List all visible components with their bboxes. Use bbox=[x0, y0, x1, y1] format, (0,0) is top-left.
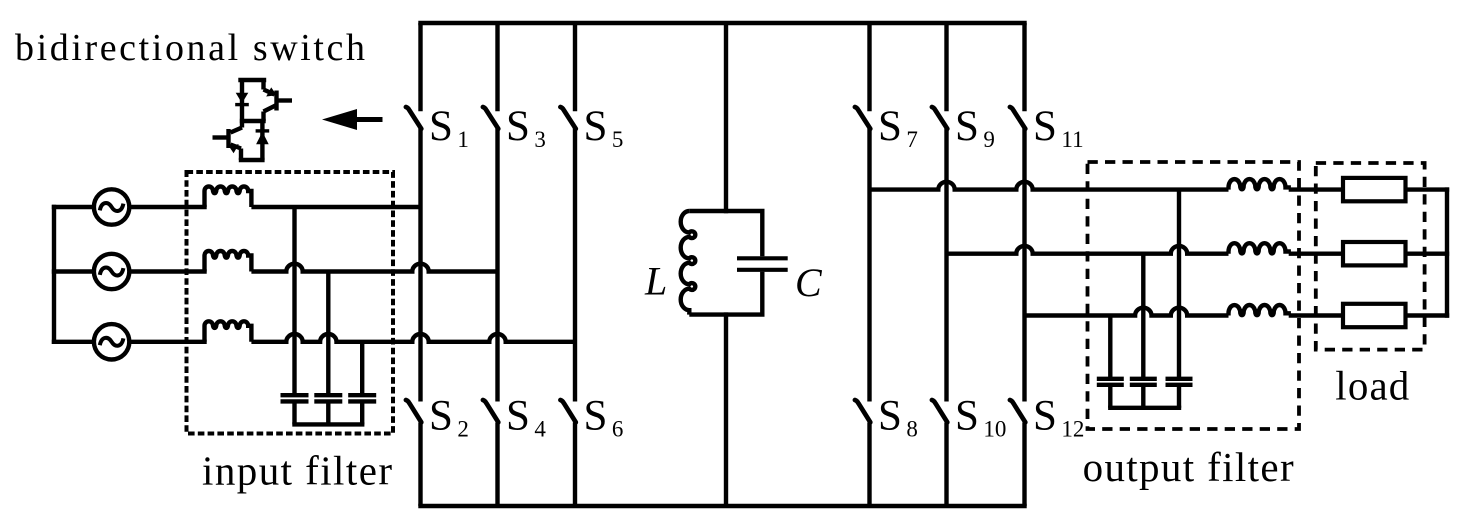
switch S9 blade bbox=[932, 107, 947, 129]
inductor output filter LoC bbox=[1229, 305, 1289, 316]
wire phase-a to leg S1 bbox=[251, 205, 420, 209]
arrow pointing to switch bbox=[322, 109, 357, 130]
wire leg of S7/S8 bbox=[867, 23, 871, 111]
wire source row 1 left stub bbox=[52, 205, 94, 209]
switch S1 blade bbox=[406, 107, 421, 129]
inductor input filter Lf1 bbox=[205, 187, 252, 207]
bidirectional switch icon bottom rail bbox=[239, 158, 265, 162]
capacitor C bbox=[760, 211, 764, 256]
wire input filter cap common bus bbox=[292, 422, 364, 426]
wire load B to neutral bbox=[1406, 251, 1450, 255]
wire middle leg upper bbox=[724, 23, 728, 213]
capacitor input filter Cf1 bbox=[292, 207, 296, 395]
wire bottom bus bbox=[418, 504, 1026, 508]
wire load neutral vertical bbox=[1445, 187, 1449, 317]
svg-text:S5: S5 bbox=[584, 103, 624, 152]
input filter dashed box bbox=[187, 172, 394, 434]
AC source V3 bbox=[94, 324, 129, 359]
svg-text:load: load bbox=[1335, 362, 1409, 408]
svg-text:C: C bbox=[795, 260, 823, 305]
svg-text:S10: S10 bbox=[955, 393, 1006, 442]
AC source V2 bbox=[94, 254, 129, 289]
wire leg of S11/S12 bbox=[1022, 23, 1026, 111]
wire leg of S5/S6 bbox=[573, 23, 577, 111]
wire leg of S9/S10 bbox=[944, 23, 948, 111]
inductor input filter Lf3 bbox=[205, 321, 252, 341]
resistor load C bbox=[1343, 304, 1406, 327]
inductor output filter LoA bbox=[1229, 179, 1289, 190]
bidirectional switch icon IGBT Q1 bbox=[261, 80, 265, 90]
svg-text:output filter: output filter bbox=[1083, 444, 1294, 490]
wire source row 2 left stub bbox=[52, 269, 94, 273]
switch S10 blade bbox=[932, 400, 947, 422]
switch S6 blade bbox=[560, 400, 575, 422]
capacitor output filter CoA bbox=[1177, 190, 1181, 379]
wire left common vertical bbox=[52, 205, 56, 344]
wire phase-c to leg S5 with hops bbox=[251, 334, 575, 342]
inductor output filter LoB bbox=[1229, 243, 1289, 254]
inductor input filter Lf2 bbox=[205, 251, 252, 272]
wire source row 3 left stub bbox=[52, 340, 94, 344]
svg-text:S1: S1 bbox=[429, 103, 469, 152]
inductor L bbox=[681, 211, 696, 315]
wire LC top node bbox=[689, 209, 764, 213]
capacitor output filter CoB bbox=[1141, 254, 1145, 379]
bidirectional switch icon middle rail bbox=[240, 119, 266, 123]
wire output phase B with hops bbox=[947, 246, 1229, 254]
wire leg of S3/S4 bbox=[495, 23, 499, 111]
svg-text:S3: S3 bbox=[506, 103, 546, 152]
resistor load A bbox=[1343, 178, 1406, 201]
bidirectional switch icon top rail bbox=[238, 78, 266, 82]
wire top bus bbox=[418, 21, 1026, 25]
switch S4 blade bbox=[483, 400, 498, 422]
wire source row 2 to filter bbox=[129, 269, 206, 273]
capacitor output filter CoC bbox=[1108, 316, 1112, 379]
wire output phase C with hops bbox=[1025, 308, 1229, 316]
svg-text:S7: S7 bbox=[878, 103, 918, 152]
switch S3 blade bbox=[483, 107, 498, 129]
bidirectional switch icon IGBT Q2 bbox=[240, 121, 244, 128]
wire load A to neutral bbox=[1406, 187, 1450, 191]
switch S5 blade bbox=[560, 107, 575, 129]
bidirectional switch icon diode D1 bbox=[240, 80, 244, 121]
svg-text:bidirectional switch: bidirectional switch bbox=[15, 27, 365, 69]
svg-text:S2: S2 bbox=[429, 393, 469, 442]
wire leg of S1/S2 bbox=[418, 23, 422, 111]
capacitor input filter Cf2 bbox=[326, 272, 330, 396]
wire phase C to load bbox=[1289, 313, 1343, 317]
svg-text:S4: S4 bbox=[506, 393, 546, 442]
switch S7 blade bbox=[855, 107, 870, 129]
svg-text:S8: S8 bbox=[878, 393, 918, 442]
svg-text:S9: S9 bbox=[955, 103, 995, 152]
switch S2 blade bbox=[406, 400, 421, 422]
capacitor input filter Cf3 bbox=[360, 342, 364, 395]
wire output filter cap common bus bbox=[1108, 406, 1181, 410]
svg-text:S11: S11 bbox=[1033, 103, 1084, 152]
switch S11 blade bbox=[1010, 107, 1025, 129]
wire source row 3 to filter bbox=[129, 340, 206, 344]
svg-text:S6: S6 bbox=[584, 393, 624, 442]
wire load C to neutral bbox=[1406, 313, 1450, 317]
svg-text:S12: S12 bbox=[1033, 393, 1084, 442]
wire phase-b to leg S3 with hops bbox=[251, 264, 497, 272]
wire phase B to load bbox=[1289, 251, 1343, 255]
switch S12 blade bbox=[1010, 400, 1025, 422]
output filter dashed box bbox=[1088, 162, 1300, 429]
resistor load B bbox=[1343, 242, 1406, 265]
wire output phase A with hops bbox=[870, 182, 1229, 190]
wire middle leg lower bbox=[724, 312, 728, 506]
svg-text:L: L bbox=[644, 259, 667, 304]
load dashed box bbox=[1316, 163, 1425, 350]
wire source row 1 to filter bbox=[129, 205, 206, 209]
switch S8 blade bbox=[855, 400, 870, 422]
wire phase A to load bbox=[1289, 187, 1343, 191]
wire LC bottom node bbox=[689, 312, 764, 316]
svg-text:input filter: input filter bbox=[202, 447, 392, 493]
bidirectional switch icon diode D2 bbox=[260, 121, 264, 160]
AC source V1 bbox=[94, 189, 129, 224]
